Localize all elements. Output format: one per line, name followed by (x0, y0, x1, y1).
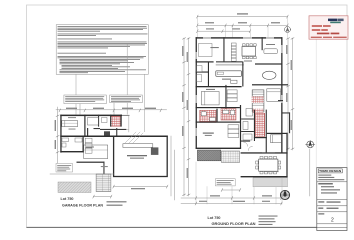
lower mid wall left (196, 86, 242, 87)
laundry red tiles tall (255, 113, 264, 136)
small fixtures in hall (88, 118, 99, 126)
driveway hatch (58, 182, 91, 193)
garage left wall (60, 115, 61, 153)
window gaps on top wall (203, 37, 211, 38)
lower mid wall right (252, 84, 288, 85)
living label (266, 44, 275, 45)
sheet row (318, 213, 324, 214)
ground left wall (196, 37, 197, 149)
callout B leader (113, 103, 115, 115)
kitchen bench top (216, 63, 244, 65)
bed 3 (267, 89, 281, 102)
svg-text:Lot 750: Lot 750 (61, 197, 74, 201)
dining table and chairs (242, 47, 256, 57)
small callout box lower-left (56, 164, 73, 173)
gray path band (253, 178, 288, 187)
alfresco bottom wall (241, 176, 288, 177)
svg-text:Lot 750: Lot 750 (208, 216, 221, 220)
right dimension lines (287, 38, 289, 150)
entry lower wall (77, 162, 105, 163)
garage door panel (123, 144, 153, 148)
inner frame line right (315, 40, 317, 168)
left dimension lines (183, 38, 185, 196)
extension verticals from top dims to wall (197, 17, 287, 38)
porch side outline (128, 116, 130, 132)
living wall stub (262, 37, 263, 50)
callout note box A (64, 95, 106, 104)
bed4 side wall (286, 133, 287, 178)
hall wall stub (241, 141, 251, 142)
extension line below notes box (75, 74, 77, 114)
general notes text box (56, 25, 148, 75)
garage bottom dimension line (114, 186, 168, 188)
garage lower dim line 2 (94, 196, 112, 198)
mid horizontal wall left (196, 61, 214, 62)
wall above ensuite (196, 107, 240, 108)
interior wall vertical (84, 115, 85, 138)
approval stamp box (309, 16, 348, 39)
council logo teal (330, 22, 341, 24)
study nook walls (208, 62, 209, 87)
project lines (321, 186, 334, 187)
date row (318, 208, 323, 209)
laundry fixtures (62, 138, 69, 142)
rooms below-left walls (83, 137, 84, 153)
top dimension line inner partial (197, 30, 250, 32)
porch inner marks (86, 147, 94, 148)
diagonal existing-structure hatch (125, 132, 143, 143)
hot water unit (151, 147, 159, 155)
mid horizontal wall right (255, 63, 282, 64)
interior partition walls upper (98, 115, 99, 127)
extension line through notes box (126, 44, 128, 115)
title block outer box (317, 168, 347, 231)
label box below plan (215, 179, 235, 186)
bed 4 (271, 135, 282, 143)
right side dim verticals (170, 136, 172, 196)
robes boxes (227, 90, 237, 102)
kitchen side wall (242, 62, 243, 87)
bathroom red tiles (221, 109, 236, 120)
garage top dimension line (56, 109, 167, 111)
dim vertical below north arrow (309, 149, 311, 196)
divider (317, 181, 347, 183)
scale row (318, 201, 324, 202)
extension line right of notes box (144, 74, 146, 132)
svg-text:TOMO DESIGN: TOMO DESIGN (319, 169, 341, 173)
areas schedule (259, 216, 278, 217)
bottom-left wall (196, 148, 242, 149)
designer name box (318, 169, 342, 173)
garage scale note (107, 201, 127, 202)
oval dining table right (262, 71, 276, 79)
deck grid (222, 151, 240, 163)
steps down (96, 174, 111, 192)
bottom dimension line 2 (181, 203, 282, 205)
callout note box B (110, 95, 143, 103)
stamp text line 1 (312, 25, 322, 27)
bed symbol upper-left room (62, 121, 78, 127)
callout A leader (79, 104, 81, 115)
entry porch outline (84, 145, 108, 159)
alfresco outdoor table (259, 159, 278, 171)
step dim smudge (101, 166, 108, 167)
alfresco top wall (241, 152, 288, 153)
rumpus room furniture (199, 44, 213, 57)
divider (317, 211, 347, 213)
ground top wall (196, 37, 283, 38)
stamp text line 3 (317, 33, 330, 35)
room label (68, 116, 76, 119)
north arrow compass (306, 140, 315, 148)
ensuite red tiles (200, 110, 216, 122)
garage top wall (60, 115, 122, 117)
divider (317, 205, 347, 207)
interior vertical wall (rumpus/dining) (223, 37, 224, 62)
bottom dimension line 1 (181, 197, 282, 199)
red tiled area 1 (WC) (111, 116, 121, 126)
stamp text line 4 (311, 37, 322, 38)
kitchen island (216, 71, 242, 77)
stamp text line 2 (312, 29, 321, 31)
fridge (231, 80, 237, 83)
top dimension line outer (197, 16, 287, 18)
right bump walls (278, 100, 283, 101)
walls around laundry (254, 110, 255, 141)
long mid wall (60, 136, 167, 138)
pantry shelving strip (231, 43, 236, 61)
divider (317, 199, 347, 201)
hall vertical wall (240, 105, 241, 149)
hall small rooms walls (241, 119, 254, 120)
bed 2 (201, 92, 219, 105)
porch dark slab (197, 150, 220, 161)
svg-text:GROUND FLOOR PLAN: GROUND FLOOR PLAN (212, 221, 256, 226)
tree shrub symbol (280, 190, 289, 199)
garage label (127, 155, 147, 156)
bed1 room label (203, 133, 214, 134)
couch living (264, 49, 277, 54)
north arrow top (285, 27, 291, 33)
stairs with rungs (252, 90, 264, 113)
door arcs hall (244, 142, 248, 146)
svg-text:2: 2 (331, 218, 334, 224)
hallway vertical wall (225, 85, 226, 110)
alfresco label (266, 171, 279, 172)
wall below bathrooms (196, 122, 240, 123)
council logo navy (328, 19, 337, 22)
top dimension line middle (197, 24, 287, 26)
meals label (244, 61, 252, 62)
sheet bottom border (darker) (27, 226, 317, 228)
wall between ensuite and bathroom (216, 109, 217, 123)
deck dim line (222, 189, 240, 191)
boundary line left (50, 173, 114, 175)
contact lines (318, 175, 331, 176)
WIR boxes (228, 125, 239, 138)
bed4 top wall (267, 133, 288, 134)
ground right wall (281, 37, 282, 153)
garage room outline (114, 136, 168, 176)
divider (317, 223, 347, 225)
entry fixtures column (85, 138, 92, 143)
svg-text:GARAGE FLOOR PLAN: GARAGE FLOOR PLAN (62, 202, 103, 207)
garage left dimension line (57, 107, 59, 163)
bottom extension verticals (196, 162, 282, 204)
project heading (318, 183, 333, 184)
